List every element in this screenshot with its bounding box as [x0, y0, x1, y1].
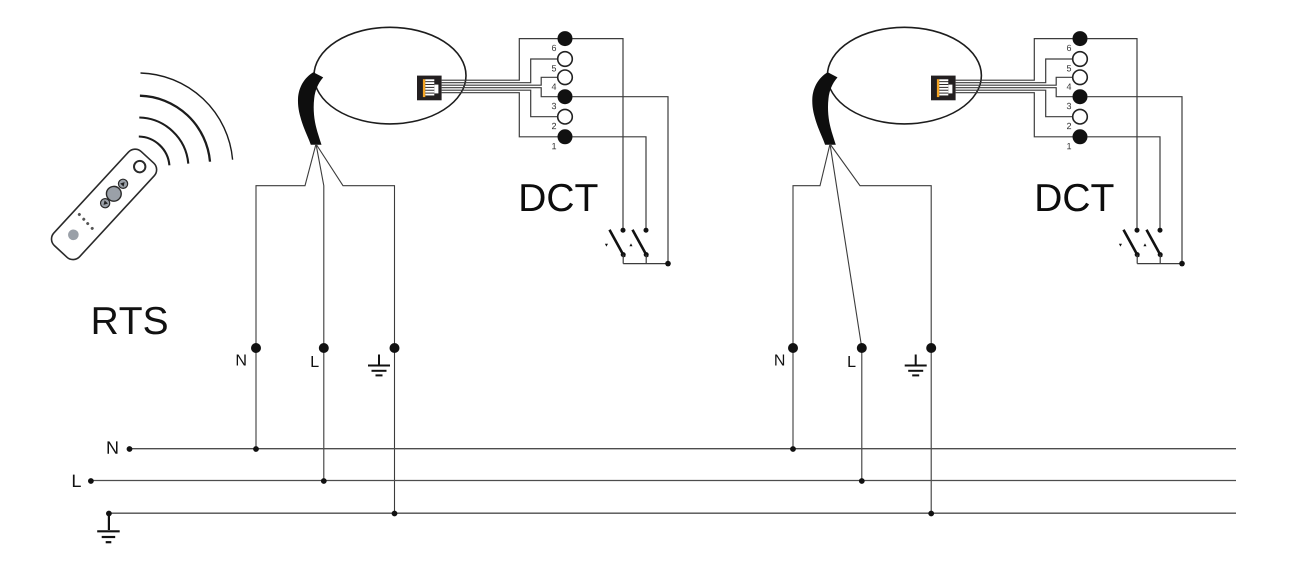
junction L M1 — [321, 478, 327, 484]
wire PE drop M1 — [316, 144, 395, 514]
wire pin1 to switch S4 — [1087, 137, 1160, 228]
pin 5 M2 — [1073, 52, 1088, 67]
pin 1 M1 — [558, 129, 573, 144]
wire L drop M1 — [316, 144, 324, 481]
terminal N M2 — [788, 343, 798, 353]
RJ plug M2 — [931, 76, 956, 101]
pin 6 M2 — [1073, 31, 1088, 46]
wire pin3 to rail — [572, 97, 668, 264]
wire pin6 to switch S3 — [1087, 39, 1137, 228]
wire L drop M2 — [830, 144, 862, 481]
wire PE drop M2 — [830, 144, 931, 514]
ground symbol bus — [97, 514, 120, 543]
wire pin6 to switch S1 — [572, 39, 623, 228]
switch S3 down — [1119, 228, 1140, 264]
RJ plug M1 — [417, 76, 442, 101]
pin 6 M1 — [558, 31, 573, 46]
terminal L M1 — [319, 343, 329, 353]
motor oval M2 — [827, 27, 981, 124]
junction PE M1 — [392, 511, 398, 517]
wire N drop M1 — [256, 144, 316, 449]
junction N M2 — [790, 446, 796, 452]
pin 1 M2 — [1073, 129, 1088, 144]
wire N drop M2 — [793, 144, 830, 449]
wire pin3 to rail M2 — [1087, 97, 1182, 264]
junction L M2 — [859, 478, 865, 484]
bus L — [91, 480, 1236, 482]
switch rail M1 — [623, 263, 668, 265]
remote my button — [103, 183, 124, 204]
terminal PE M2 — [926, 343, 936, 353]
wire pin1 to switch S2 — [572, 137, 646, 228]
switch rail M2 — [1137, 263, 1182, 265]
remote up button — [117, 177, 130, 190]
switch S1 down — [605, 228, 626, 264]
pin 3 M2 — [1073, 89, 1088, 104]
pin 4 M1 — [558, 70, 573, 85]
bus N — [130, 448, 1236, 450]
motor cable M2 — [812, 72, 837, 145]
label DCT M1 — [521, 184, 597, 212]
bus PE — [109, 512, 1236, 514]
pin 4 M2 — [1073, 70, 1088, 85]
pin 2 M2 — [1073, 109, 1088, 124]
remote RTS body — [48, 145, 161, 263]
junction rail M1 — [665, 261, 671, 267]
label DCT M2 — [1037, 184, 1113, 212]
terminal PE M1 — [390, 343, 400, 353]
terminal N M1 — [251, 343, 261, 353]
motor cable M1 — [298, 72, 323, 145]
remote down button — [99, 197, 112, 210]
pin 3 M1 — [558, 89, 573, 104]
pin 2 M1 — [558, 109, 573, 124]
label RTS — [94, 307, 167, 335]
motor oval M1 — [314, 27, 466, 124]
terminal L M2 — [857, 343, 867, 353]
switch S4 up — [1143, 228, 1162, 264]
wireless waves — [139, 73, 233, 165]
switch S2 up — [629, 228, 648, 264]
remote channel dots — [77, 212, 81, 216]
wire bundle M1 to pins — [442, 39, 558, 137]
junction PE M2 — [928, 511, 934, 517]
wire bundle M2 to pins — [956, 39, 1073, 137]
junction N M1 — [253, 446, 259, 452]
pin 5 M1 — [558, 52, 573, 67]
junction rail M2 — [1179, 261, 1185, 267]
remote select button — [66, 227, 81, 242]
remote programming button — [132, 159, 148, 175]
